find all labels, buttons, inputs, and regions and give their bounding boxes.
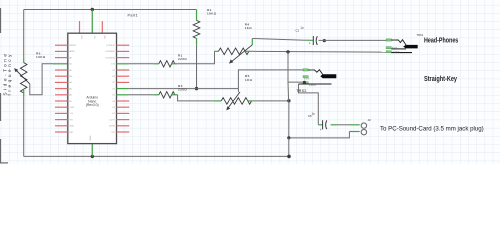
node top-rail to Vcc pin xyxy=(91,8,94,11)
wire C5 right green xyxy=(331,124,338,126)
TRS1 ring pin box and line xyxy=(386,47,391,49)
svg-text:RESET: RESET xyxy=(69,45,77,47)
wire ground bus xyxy=(24,155,289,157)
wire A0 green stub xyxy=(53,63,68,65)
svg-text:RIGHT: RIGHT xyxy=(304,79,310,81)
svg-text:+: + xyxy=(309,42,311,46)
pins left red stubs xyxy=(55,45,68,132)
resistor R3 220 xyxy=(159,92,175,98)
wire R3 down and right to R5 xyxy=(178,95,214,101)
wire key sleeve to C5 xyxy=(299,84,319,125)
pins right red stubs xyxy=(117,45,130,132)
connector J2 plug circles xyxy=(361,123,366,128)
svg-text:+3V3: +3V3 xyxy=(69,107,75,109)
svg-text:+5V: +5V xyxy=(93,35,95,39)
resistor R2 18K vertical xyxy=(193,10,200,45)
svg-text:D12/MISO: D12/MISO xyxy=(105,51,115,53)
wire C5 left green xyxy=(318,124,322,126)
pin labels top rotated xyxy=(80,35,105,40)
svg-text:Head-Phones: Head-Phones xyxy=(424,37,458,44)
wire Vcc top pin (green) xyxy=(91,10,93,34)
wire R4 right to headphone sleeve xyxy=(251,50,387,53)
capacitor C5 xyxy=(320,120,327,132)
R4 wiper arrow xyxy=(231,45,252,62)
svg-text:C1: C1 xyxy=(296,29,300,33)
R5 wiper arrow from D6 net xyxy=(237,89,239,93)
TRS1 tip contact xyxy=(391,40,406,46)
TRS1 plug xyxy=(403,45,418,49)
svg-text:D0/RX: D0/RX xyxy=(109,126,116,128)
wire +5V top rail xyxy=(24,9,197,11)
wire R1 to R4 left xyxy=(177,51,214,64)
svg-text:RIGHT: RIGHT xyxy=(392,48,398,50)
wire R1 right green xyxy=(172,63,178,65)
resistor R1 220 xyxy=(159,61,175,67)
svg-text:1KΩ: 1KΩ xyxy=(245,78,253,82)
wire R5 node down to plug sleeve xyxy=(289,101,350,138)
svg-text:D1/TX: D1/TX xyxy=(109,119,116,121)
TRS2 sleeve pin box and line xyxy=(303,82,308,84)
potentiometer R6 10K (side-tone) xyxy=(14,57,30,96)
node at key ring pin xyxy=(303,81,306,84)
wire R4 left green stub xyxy=(215,50,219,52)
wire GND pin (green) xyxy=(91,144,93,157)
wire C1 left green xyxy=(305,39,313,41)
R6 wiper arrow xyxy=(16,71,29,84)
wire R4 wiper to C1 xyxy=(252,39,305,41)
svg-text:SLEEVE: SLEEVE xyxy=(393,51,401,53)
pin top stub 2 xyxy=(101,21,103,33)
TRS2 tip pin box xyxy=(303,69,308,71)
wire sleeve-net down to key ring xyxy=(288,52,304,82)
svg-text:18KΩ: 18KΩ xyxy=(207,12,217,16)
svg-text:AREF: AREF xyxy=(69,50,75,53)
capacitor C1 xyxy=(309,36,318,46)
node sleeve net branch xyxy=(286,50,289,53)
node GND pin on bus xyxy=(91,155,94,158)
background canvas xyxy=(0,0,500,164)
wire D6 pin green stub xyxy=(117,88,129,90)
wire x288.9 node down to ground bus xyxy=(288,138,290,157)
svg-text:D13/SCK: D13/SCK xyxy=(106,45,115,47)
potentiometer R5 1K xyxy=(221,98,252,105)
svg-text:To PC-Sound-Card (3.5 mm jack: To PC-Sound-Card (3.5 mm jack plug) xyxy=(380,125,484,132)
pin labels right column xyxy=(105,45,116,134)
svg-text:1KΩ: 1KΩ xyxy=(245,26,253,30)
svg-text:D11/MOSI: D11/MOSI xyxy=(105,57,115,59)
wire R6 wiper to pin A0 xyxy=(30,64,53,95)
svg-text:1μ: 1μ xyxy=(312,111,315,115)
jack TRS1 head-phones xyxy=(386,39,418,53)
node R2 joins D6 wire xyxy=(195,87,198,90)
pin top stub 1 xyxy=(79,21,81,33)
wire D6 net horizontal xyxy=(129,88,239,90)
node after C1 xyxy=(323,39,326,42)
wire ring node down to R5 node xyxy=(287,82,290,101)
svg-text:RST: RST xyxy=(69,132,74,134)
svg-text:VIN: VIN xyxy=(103,35,105,39)
wire R5 right to node xyxy=(253,100,289,102)
wire D6 net up to key tip xyxy=(238,70,303,89)
node at sleeve branch corner xyxy=(287,136,290,139)
TRS2 tip contact xyxy=(308,70,323,75)
node bus end xyxy=(287,155,291,159)
svg-text:+5V: +5V xyxy=(69,113,73,115)
TRS2 ring pin box xyxy=(303,76,308,78)
wire C1 to headphone tip xyxy=(319,39,387,41)
svg-text:SLEEVE: SLEEVE xyxy=(309,85,317,87)
svg-text:10KΩ: 10KΩ xyxy=(36,55,46,59)
svg-text:220Ω: 220Ω xyxy=(178,88,187,92)
svg-text:Part1: Part1 xyxy=(128,14,139,18)
wire left rail lower segment to ground bus xyxy=(23,96,25,156)
wire R2 bottom down to D6 net xyxy=(196,45,198,89)
svg-text:VIN: VIN xyxy=(69,119,73,121)
jack TRS2 straight key xyxy=(299,69,337,87)
node R5 right junction xyxy=(287,99,290,102)
svg-text:220Ω: 220Ω xyxy=(178,57,187,61)
wire D5 to R3 xyxy=(129,94,154,96)
TRS2 plug xyxy=(320,74,336,78)
wire R5 left green stub xyxy=(214,100,221,102)
wire left rail upper segment xyxy=(23,10,25,58)
svg-text:(Rev3.0): (Rev3.0) xyxy=(86,103,99,107)
svg-text:+: + xyxy=(320,128,322,132)
svg-text:GND: GND xyxy=(90,135,92,140)
TRS1 tip pin box xyxy=(386,39,391,41)
frame border dashes left edge xyxy=(0,8,8,163)
wire D10 pin green stub xyxy=(117,63,129,65)
svg-text:1μ: 1μ xyxy=(300,25,303,29)
wire C5 to plug tip xyxy=(338,124,350,126)
wire R3 right green xyxy=(172,94,178,96)
potentiometer R4 1K xyxy=(219,39,253,64)
svg-text:frequency: frequency xyxy=(7,52,12,96)
svg-text:Straight-Key: Straight-Key xyxy=(424,76,457,83)
svg-text:J2: J2 xyxy=(368,118,372,122)
svg-text:GND: GND xyxy=(69,126,74,128)
op: Arduino Nano U1 body xyxy=(68,33,117,143)
svg-text:TRS1: TRS1 xyxy=(417,33,424,37)
TRS1 sleeve pin box and line xyxy=(386,51,391,53)
pin labels left column xyxy=(69,45,77,134)
wire D5 pin green stub xyxy=(117,94,129,96)
